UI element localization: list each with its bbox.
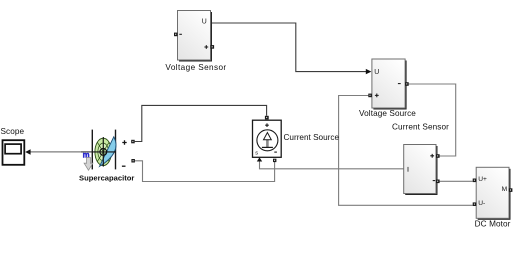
block Voltage Sensor <box>178 11 213 62</box>
wire Voltage Source + to DC Motor U- <box>339 96 473 206</box>
wire Current Sensor - to DC Motor U+ <box>440 180 473 182</box>
svg-text:DC Motor: DC Motor <box>475 220 511 229</box>
svg-text:Current Sensor: Current Sensor <box>392 122 449 131</box>
port tab Voltage Source - (right) <box>405 82 409 86</box>
port tab Current Sensor + (right) <box>436 154 440 158</box>
block Voltage Source <box>372 59 407 110</box>
svg-text:M: M <box>502 186 508 193</box>
block Current Sensor <box>404 145 438 196</box>
label Voltage Sensor <box>165 63 226 72</box>
svg-text:Scope: Scope <box>1 127 25 136</box>
port tab DC Motor U+ (left) <box>473 179 477 183</box>
port tab Current Sensor - (right) <box>436 180 440 184</box>
port tab Voltage Source + (left) <box>368 94 372 98</box>
wire Voltage Source - to Current Sensor + <box>409 84 456 156</box>
label DC Motor <box>475 220 511 229</box>
label Supercapacitor m port <box>83 150 90 159</box>
wire Supercapacitor + to Current Source + (top) <box>135 105 267 141</box>
block Supercapacitor <box>92 130 126 170</box>
svg-text:U: U <box>374 69 379 76</box>
svg-text:Voltage Sensor: Voltage Sensor <box>165 63 226 72</box>
port tab DC Motor U- (left) <box>473 202 477 206</box>
svg-text:U+: U+ <box>478 176 487 183</box>
svg-text:Supercapacitor: Supercapacitor <box>79 173 134 182</box>
label Voltage Source <box>359 109 416 118</box>
svg-text:Current Source: Current Source <box>284 133 340 142</box>
svg-text:U: U <box>202 19 207 26</box>
port tab Current Source + (top) <box>265 116 269 120</box>
wire Voltage Sensor U output to Voltage Source U input <box>210 23 371 74</box>
label Supercapacitor <box>79 173 134 182</box>
svg-text:U-: U- <box>478 200 485 207</box>
port tab DC Motor M (right) <box>509 188 513 192</box>
wire Supercapacitor m output to Scope input <box>25 149 92 155</box>
port tab Voltage Sensor + (right) <box>211 45 215 49</box>
wire Supercapacitor - to Current Source - (bottom) <box>135 161 275 182</box>
label Current Source <box>284 133 340 142</box>
label Current Sensor <box>392 122 449 131</box>
svg-text:s: s <box>255 151 258 157</box>
block Scope <box>3 140 25 165</box>
port tab Voltage Sensor - (left) <box>174 33 178 37</box>
label Scope <box>1 127 25 136</box>
icon gray down arrow below m <box>84 158 93 171</box>
port tab Supercapacitor - (right) <box>131 159 135 163</box>
block DC Motor <box>476 167 510 220</box>
block Current Source <box>253 120 282 157</box>
wire Current Sensor I output to Current Source s input <box>257 157 404 168</box>
port tab Current Source - (bottom) <box>273 159 276 162</box>
svg-text:Voltage Source: Voltage Source <box>359 109 416 118</box>
port tab Supercapacitor + (right) <box>131 140 135 144</box>
